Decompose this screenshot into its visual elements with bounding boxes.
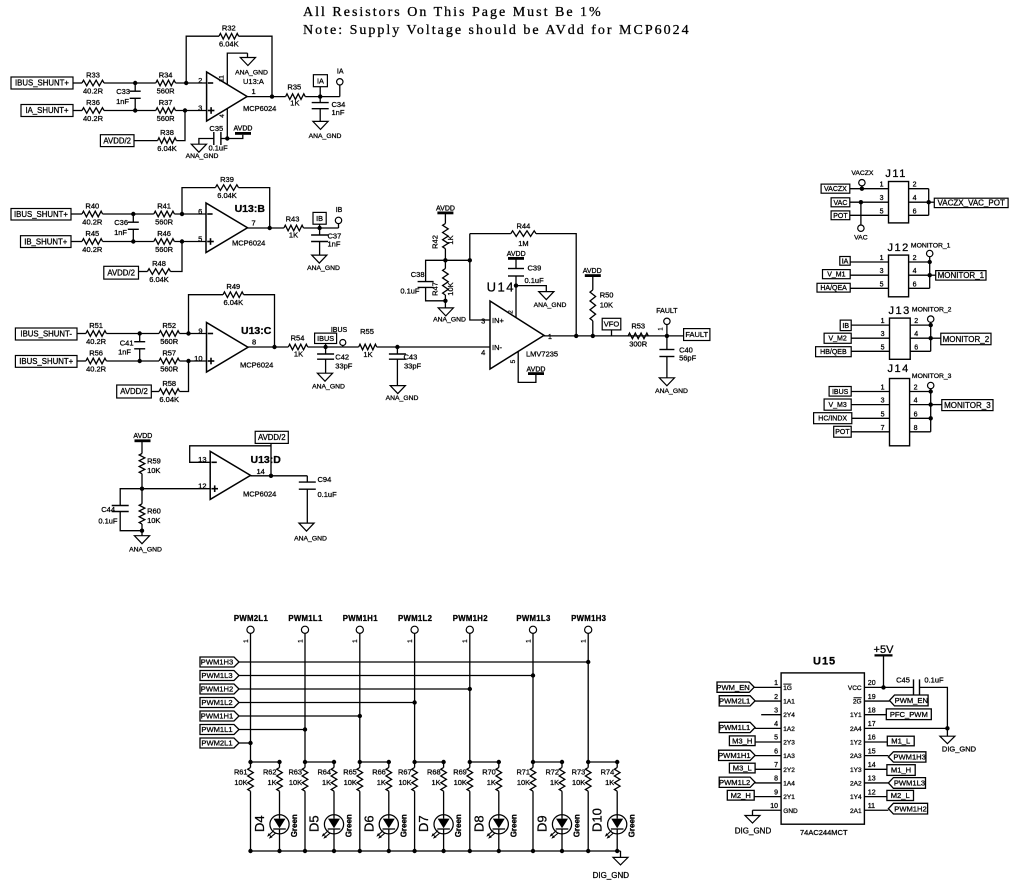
resistor R56 [86,358,107,364]
resistor R61 [250,762,252,768]
svg-text:3: 3 [881,331,885,338]
junction pair left ch2 [303,760,307,764]
svg-text:6: 6 [914,411,918,418]
wire R65 to rail [359,791,361,851]
svg-text:1: 1 [880,255,884,262]
svg-text:0.1uF: 0.1uF [525,276,545,285]
junction R44 at output [574,334,578,338]
pin 4 stem [226,109,228,139]
wire IBUS_SHUNT+ to R33 [73,82,82,84]
svg-text:6: 6 [913,281,917,288]
svg-text:MONITOR_2: MONITOR_2 [912,307,952,314]
wire AVDD/2 to R58 [151,391,159,393]
svg-text:R61: R61 [234,768,248,777]
svg-text:10K: 10K [147,516,160,525]
U15 pin 2 wire [755,700,781,702]
wire LED D6 to rail [388,834,390,851]
junction FAULT node [665,334,669,338]
net label MONITOR_3 [931,404,942,406]
svg-text:2: 2 [914,385,918,392]
resistor R34 [156,80,176,86]
svg-text:PWM1H3: PWM1H3 [571,614,607,623]
svg-text:560R: 560R [160,337,179,346]
svg-text:6.04K: 6.04K [217,191,237,200]
junction R47 bottom [443,299,447,303]
junction R50 output [591,334,595,338]
junction pair right ch4 [441,760,445,764]
resistor R55 [359,344,377,350]
svg-text:R52: R52 [162,321,176,330]
svg-text:IBUS: IBUS [832,389,849,396]
resistor R39 [215,185,238,191]
net label IB_SHUNT+ [21,236,72,248]
svg-text:MCP6024: MCP6024 [232,239,265,248]
svg-text:PFC_PWM: PFC_PWM [890,710,928,719]
svg-text:HC/INDX: HC/INDX [818,416,847,423]
wire AVDD/2 to R38 [134,140,158,142]
resistor R35 [286,94,306,100]
wire R42 to R47 [444,249,446,269]
wire C45 to gnd [920,687,948,736]
U15 pin 10 wire [753,809,782,811]
svg-text:R54: R54 [291,334,305,343]
ground ANA_GND pin 11 [247,53,249,57]
svg-text:VAC: VAC [834,200,848,207]
net label IBUS_SHUNT+ B [11,209,71,221]
svg-text:PWM1H1: PWM1H1 [201,712,234,721]
U15 pin 15 wire [864,755,888,757]
junction pair left ch5 [468,760,472,764]
U15 pin 11 wire [864,809,888,811]
resistor R45 [82,239,103,245]
resistor R46 [154,239,175,245]
svg-text:C35: C35 [209,124,223,133]
resistor R40 [82,211,103,217]
svg-text:1nF: 1nF [332,108,345,117]
svg-text:10: 10 [194,354,202,363]
junction IA node [318,94,322,98]
capacitor C44 [120,489,142,506]
J13 pin 5 wire [851,350,889,352]
J14 pin 5 wire [852,417,890,419]
wire R64 to LED [333,791,335,815]
J14 pin 3 label [824,399,851,410]
svg-text:10K: 10K [454,778,467,787]
wire R57 to pin10 [180,360,207,362]
wire R48 up to pin5 [171,242,183,272]
svg-text:R37: R37 [159,98,173,107]
wire PWM1H3 pin down [587,633,589,762]
J13 pin 3 wire [851,337,889,339]
ground ANA_GND C37 [312,255,327,263]
svg-text:PWM1H2: PWM1H2 [453,614,489,623]
J11 output bus [928,189,930,216]
J12 pin 5 wire [850,287,888,289]
capacitor C39 [515,258,517,268]
junction C41 bottom [138,359,142,363]
resistor R41 [154,211,175,217]
junction LED D7 rail [441,849,445,853]
net label IA box [313,75,327,87]
junction PWM1L1 net [303,727,307,731]
svg-text:PWM_EN: PWM_EN [716,683,749,692]
wire R55 to C43 node [377,346,490,348]
svg-text:560R: 560R [157,87,176,96]
capacitor C41 [139,334,141,342]
J14 pin 8 wire [910,431,931,433]
net label VACZX_VAC_POT [929,201,935,203]
junction pair left ch4 [412,760,416,764]
wire feedback left C [189,295,224,334]
J13 pin 1 wire [851,324,889,326]
resistor R62 [277,768,283,792]
svg-text:All Resistors On This Page Mus: All Resistors On This Page Must Be 1% [303,5,603,20]
svg-text:IBUS_SHUNT+: IBUS_SHUNT+ [19,357,73,366]
svg-text:4: 4 [219,114,226,118]
ground ANA_GND C35 [191,144,206,152]
net label M2_L pin12 [887,790,914,800]
svg-text:1K: 1K [322,778,331,787]
svg-text:1K: 1K [294,350,303,359]
svg-text:1A4: 1A4 [783,780,795,787]
svg-text:ANA_GND: ANA_GND [294,536,327,543]
wire feedback D [190,446,271,463]
wire R35 to IA node [305,96,340,98]
svg-text:LMV7235: LMV7235 [526,349,558,358]
svg-text:POT: POT [835,429,850,436]
junction PWM1L2 net [412,700,416,704]
svg-text:AVDD: AVDD [234,125,253,132]
J14 pin 1 wire [851,391,889,393]
svg-text:PWM1H3: PWM1H3 [893,753,926,762]
capacitor C36 [132,214,134,222]
svg-text:0.1uF: 0.1uF [318,490,338,499]
svg-text:6.04K: 6.04K [149,275,169,284]
svg-text:1: 1 [243,639,250,643]
resistor R51 [86,331,107,337]
wire LED D7 to rail [443,834,445,851]
J14 pin 1 label [829,387,851,397]
svg-text:AVDD/2: AVDD/2 [103,136,131,145]
svg-text:GND: GND [783,808,798,815]
svg-text:R58: R58 [162,379,176,388]
svg-text:PWM1L3: PWM1L3 [894,779,925,788]
net flag PWM1L3 [200,671,239,681]
svg-text:IB: IB [842,323,849,330]
svg-text:2A3: 2A3 [850,753,862,760]
junction feedback at pin9 [186,331,190,335]
J13 pin 3 label [824,333,851,343]
net label M3_H pin5 [729,736,755,746]
svg-text:AVDD/2: AVDD/2 [120,387,148,396]
wire LED D9 to rail [561,834,563,851]
svg-text:C36: C36 [114,218,128,227]
svg-text:R51: R51 [89,321,103,330]
svg-text:PWM1L2: PWM1L2 [201,698,232,707]
J12 pin 1 label [840,257,850,266]
svg-text:M1_H: M1_H [891,766,911,775]
J11 pin 6 wire [909,214,929,216]
resistor R68 [441,768,447,792]
J12 pin 4 wire [909,274,930,276]
svg-text:6.04K: 6.04K [159,395,179,404]
svg-text:0.1uF: 0.1uF [98,516,118,525]
capacitor C43 [396,347,398,354]
svg-text:1: 1 [774,680,778,687]
wire R40 to R41 [103,213,154,215]
svg-text:1Y2: 1Y2 [850,740,862,747]
resistor R53 [628,333,648,339]
wire R61 to rail [250,791,252,851]
wire R41 to pin6 [174,213,206,215]
svg-text:D8: D8 [471,815,486,832]
svg-text:J14: J14 [888,363,910,375]
svg-text:V_M3: V_M3 [829,402,847,409]
junction feedback at output [270,94,274,98]
svg-text:4: 4 [481,348,485,357]
pin 5 stem [518,351,536,382]
junction C36 bottom [131,239,135,243]
svg-text:PWM1L2: PWM1L2 [398,614,433,623]
wire IA_SHUNT+ to R36 [73,110,82,112]
svg-text:POT: POT [833,213,848,220]
svg-text:1K: 1K [446,235,455,244]
svg-text:R72: R72 [545,768,559,777]
svg-text:HB/QEB: HB/QEB [820,349,847,356]
wire output U14 [544,335,667,337]
svg-text:1A1: 1A1 [783,699,795,706]
svg-text:10K: 10K [600,300,613,309]
junction LED D4 rail [277,849,281,853]
junction J14 bus extra [929,416,933,420]
junction LED D9 rail [560,849,564,853]
svg-text:ANA_GND: ANA_GND [655,388,688,395]
svg-text:0.1uF: 0.1uF [209,144,229,153]
wire PWM1L2 pin down [414,633,416,762]
junction PWM2L1 net [248,741,252,745]
net label AVDD/2 block C [117,385,152,398]
wire PWM1H2 pin down [469,633,471,762]
wire IBUS node to R55 [343,346,359,348]
svg-text:7: 7 [881,425,885,432]
U15 pin 12 wire [864,796,887,798]
resistor R43 [284,225,304,231]
svg-text:C94: C94 [318,475,332,484]
capacitor C45 [913,679,915,695]
comparator U14 [490,301,544,369]
junction pin3 riser [468,258,472,262]
svg-text:ANA_GND: ANA_GND [386,395,419,402]
junction LED D5 rail [332,849,336,853]
svg-text:MONITOR_2: MONITOR_2 [943,335,990,344]
wire pair link ch6 [533,762,562,768]
svg-text:74AC244MCT: 74AC244MCT [800,828,848,837]
svg-text:MONITOR_3: MONITOR_3 [912,373,952,380]
svg-text:4: 4 [914,398,918,405]
wire R73 to rail [587,791,589,851]
svg-text:R67: R67 [398,768,412,777]
svg-text:1nF: 1nF [328,240,341,249]
net label AVDD/2 block A [100,135,134,147]
resistor R57 [159,358,180,364]
junction pair right ch5 [497,760,501,764]
svg-text:R65: R65 [343,768,357,777]
net flag PWM1L2 pin8 [719,777,755,787]
svg-text:MONITOR_3: MONITOR_3 [944,401,991,410]
LED D6 [379,815,398,834]
svg-text:Green: Green [290,814,299,837]
svg-text:8: 8 [252,338,256,347]
J13 pin 6 wire [910,350,931,352]
ground DIG_GND rail [620,851,622,857]
svg-text:560R: 560R [160,365,179,374]
svg-text:11: 11 [219,75,226,82]
svg-text:D6: D6 [361,815,376,832]
wire PWM1L3 pin down [532,633,534,762]
net label MONITOR_1 [930,274,936,276]
svg-text:PWM1L2: PWM1L2 [719,778,750,787]
svg-text:PWM1H1: PWM1H1 [718,751,751,760]
resistor R73 [587,762,589,768]
junction J12 bus pin2 [928,260,932,264]
resistor R66 [386,768,392,792]
svg-text:3: 3 [881,398,885,405]
net flag PWM_EN pin1 [717,682,754,692]
J12 pin 6 wire [909,287,930,289]
U15 pin 4 wire [755,727,781,729]
svg-text:PWM2L1: PWM2L1 [234,614,269,623]
svg-text:1K: 1K [487,778,496,787]
wire R69 to rail [469,791,471,851]
junction pair right ch2 [332,760,336,764]
svg-text:VCC: VCC [848,685,862,692]
resistor R38 [158,138,177,144]
junction R69 rail [468,849,472,853]
wire PWM1H1 net [239,715,360,717]
svg-text:1: 1 [525,639,532,643]
resistor R60 [139,504,145,524]
svg-text:1: 1 [880,182,884,189]
junction pair left ch3 [358,760,362,764]
svg-text:2G: 2G [853,699,862,706]
svg-text:IN-: IN- [492,343,503,352]
svg-text:2: 2 [913,255,917,262]
wire R50 to output [592,321,594,336]
svg-text:5: 5 [881,411,885,418]
U15 pin 7 wire [755,768,781,770]
wire pair link ch7 [588,762,617,768]
junction bias at pin3 [183,108,187,112]
resistor R32 [219,33,239,39]
svg-text:1K: 1K [267,778,276,787]
svg-text:6.04K: 6.04K [157,144,177,153]
svg-text:1: 1 [881,385,885,392]
junction pair right ch6 [560,760,564,764]
U15 pin 17 wire 2A4 [864,727,947,729]
svg-text:R39: R39 [220,175,234,184]
net label IA_SHUNT+ [21,105,73,117]
svg-text:1K: 1K [432,778,441,787]
svg-text:R60: R60 [147,507,161,516]
svg-text:R45: R45 [85,229,99,238]
svg-text:MONITOR_1: MONITOR_1 [911,243,951,250]
LED D7 [434,815,453,834]
net label AVDD/2 block B [104,266,139,279]
svg-text:R62: R62 [263,768,277,777]
svg-text:14: 14 [257,467,265,476]
svg-text:7: 7 [252,219,256,228]
svg-text:R43: R43 [286,215,300,224]
wire R38 up to pin3 [176,111,185,141]
wire pair link ch5 [470,762,499,768]
net flag PWM1L2 [200,698,239,708]
svg-text:R36: R36 [86,98,100,107]
resistor R33 [82,80,104,86]
wire PWM2L1 net [239,742,251,744]
J14 pin 3 wire [851,404,889,406]
net flag PWM1L1 pin4 [719,722,755,732]
net flag PWM2L1 [200,738,239,748]
svg-text:PWM1H1: PWM1H1 [343,614,379,623]
junction pin2 [514,283,518,287]
svg-text:ANA_GND: ANA_GND [129,547,162,554]
net label PFC_PWM pin18 [886,709,931,720]
svg-text:IN+: IN+ [492,316,505,325]
wire LED D8 to rail [498,834,500,851]
svg-text:VACZX: VACZX [851,170,874,177]
svg-text:1K: 1K [363,350,372,359]
resistor R71 [532,762,534,768]
wire feedback left [186,36,219,83]
svg-text:1: 1 [297,639,304,643]
svg-text:10K: 10K [517,778,530,787]
svg-text:R56: R56 [89,349,103,358]
svg-text:DIG_GND: DIG_GND [735,827,772,836]
wire R66 to LED [388,791,390,815]
svg-text:1Y1: 1Y1 [850,712,862,719]
svg-text:U15: U15 [813,656,836,668]
J12 pin 3 wire [850,274,888,276]
J11 pin 2 wire [909,188,929,190]
J11 pin 3 wire [850,201,889,203]
svg-text:ANA_GND: ANA_GND [312,384,345,391]
svg-text:17: 17 [868,721,876,728]
svg-text:R38: R38 [160,128,174,137]
svg-text:1Y3: 1Y3 [850,767,862,774]
svg-text:2: 2 [913,182,917,189]
svg-text:6: 6 [914,344,918,351]
ground ANA_GND C34 [313,121,328,129]
wire LED D10 to rail [616,834,618,851]
svg-text:IB: IB [336,207,343,214]
svg-text:J11: J11 [885,168,906,180]
junction J14 bus out [929,402,933,406]
ground ANA_GND pin2 [539,292,554,300]
U15 pin 6 wire [755,755,781,757]
svg-text:6: 6 [774,748,778,755]
svg-text:ANA_GND: ANA_GND [307,265,340,272]
wire PWM2L1 pin down [250,633,252,762]
svg-text:14: 14 [868,762,876,769]
svg-text:12: 12 [198,482,206,491]
ground DIG_GND pin10 [752,810,754,815]
wire R56 to R57 [106,360,159,362]
wire LED D5 to rail [333,834,335,851]
resistor R42 [443,224,449,249]
svg-text:9: 9 [774,789,778,796]
wire R74 to LED [616,791,618,815]
svg-text:PWM1L1: PWM1L1 [201,725,232,734]
